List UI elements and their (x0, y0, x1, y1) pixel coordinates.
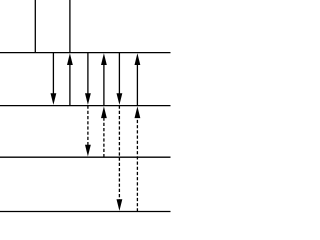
solid down arrow A3 (L1 to L2) (85, 53, 91, 105)
solid down arrow A5 (L1 to L2) (117, 53, 123, 105)
level line L4 (0, 211, 171, 213)
dashed up arrow D2 (L3 to L2) (101, 106, 107, 157)
dashed down arrow D3 (L2 to L4) (117, 106, 123, 211)
solid up arrow A4 (L2 to L1) (101, 53, 107, 105)
level line L3 (0, 156, 171, 158)
solid up arrow A6 (L2 to L1) (135, 53, 141, 105)
vertical line V2 from top to L1 (69, 0, 71, 53)
level line L1 (0, 52, 171, 54)
solid up arrow A2 (L2 to L1) (67, 53, 73, 105)
dashed up arrow D4 (L4 to L2) (135, 106, 141, 211)
dashed down arrow D1 (L2 to L3) (85, 106, 91, 157)
vertical line V1 from top to L1 (34, 0, 36, 53)
level line L2 (0, 105, 171, 107)
solid down arrow A1 (L1 to L2) (51, 53, 57, 105)
